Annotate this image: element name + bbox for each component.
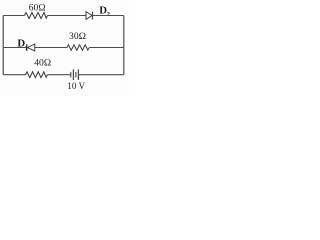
svg-text:30Ω: 30Ω: [69, 31, 86, 42]
wire middle-left segment: [3, 47, 27, 49]
wire top-left segment: [3, 15, 24, 17]
svg-text:60Ω: 60Ω: [29, 3, 46, 14]
svg-text:10 V: 10 V: [67, 81, 85, 91]
battery 10V: [71, 69, 79, 80]
svg-text:1: 1: [25, 44, 28, 51]
wire left side: [2, 16, 4, 75]
wire top-middle segment: [48, 15, 87, 17]
resistor 30ohm: [67, 45, 89, 51]
wire bottom-left segment: [3, 74, 25, 76]
resistor 60ohm: [25, 13, 48, 19]
diode D2: [86, 12, 93, 20]
wire middle-center segment: [35, 47, 67, 49]
wire top-right segment: [92, 15, 123, 17]
wire middle-right segment: [89, 47, 124, 49]
wire right side: [123, 16, 125, 75]
resistor 40ohm: [26, 72, 48, 78]
wire bottom-right segment: [78, 74, 123, 76]
wire bottom-middle segment: [47, 74, 70, 76]
svg-text:40Ω: 40Ω: [34, 58, 51, 69]
diode D1: [27, 44, 35, 51]
